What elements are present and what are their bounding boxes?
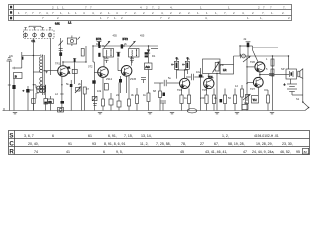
svg-text:VOL: VOL [208, 75, 214, 79]
svg-text:+: + [284, 83, 286, 87]
svg-text:D1: D1 [152, 54, 156, 58]
svg-text:2S45: 2S45 [130, 77, 137, 81]
svg-text:74: 74 [34, 150, 38, 154]
svg-text:0T2: 0T2 [88, 65, 93, 69]
svg-text:41: 41 [66, 150, 70, 154]
svg-text:24, 44, 9, 24a,: 24, 44, 9, 24a, [252, 150, 274, 154]
svg-text:LR: LR [223, 68, 226, 72]
svg-text:2.: 2. [134, 11, 137, 15]
svg-text:23, 30,: 23, 30, [282, 142, 293, 146]
svg-text:45: 45 [180, 150, 184, 154]
svg-text:1.: 1. [62, 6, 65, 10]
svg-text:7,: 7, [39, 11, 42, 15]
svg-text:AN: AN [9, 54, 13, 58]
svg-text:7, 15,: 7, 15, [124, 134, 133, 138]
svg-text:2S12: 2S12 [106, 77, 113, 81]
svg-text:4,: 4, [161, 11, 164, 15]
svg-text:7,: 7, [25, 11, 28, 15]
svg-text:1, 2,: 1, 2, [222, 134, 229, 138]
svg-text:11, 2,: 11, 2, [140, 142, 149, 146]
svg-text:TR4: TR4 [177, 88, 182, 92]
svg-text:2.: 2. [282, 11, 285, 15]
svg-text:TR1: TR1 [55, 62, 60, 66]
svg-text:4,: 4, [170, 6, 173, 10]
svg-text:1.: 1. [114, 16, 117, 20]
svg-text:S1: S1 [296, 97, 300, 101]
svg-text:7, 25, 58,: 7, 25, 58, [156, 142, 171, 146]
svg-text:6, 91,: 6, 91, [108, 134, 117, 138]
svg-text:91: 91 [68, 142, 72, 146]
svg-text:8, 91, 8, 6, 91: 8, 91, 8, 6, 91 [104, 142, 125, 146]
svg-text:S: S [9, 132, 13, 139]
svg-text:455: 455 [140, 34, 145, 38]
svg-text:TR5: TR5 [202, 88, 207, 92]
svg-text:4,: 4, [46, 11, 49, 15]
svg-text:VR: VR [220, 63, 224, 67]
svg-text:1.: 1. [108, 11, 111, 15]
svg-text:27: 27 [200, 142, 204, 146]
svg-text:220: 220 [200, 96, 205, 100]
svg-text:7,: 7, [224, 11, 227, 15]
svg-text:C: C [9, 140, 14, 147]
svg-text:4194-0102-H .01: 4194-0102-H .01 [254, 134, 279, 138]
svg-text:7,: 7, [262, 11, 265, 15]
svg-text:46, 52,: 46, 52, [280, 150, 291, 154]
svg-text:4,: 4, [92, 11, 95, 15]
svg-text:47: 47 [243, 150, 247, 154]
svg-text:20, 40,: 20, 40, [28, 142, 39, 146]
svg-text:1,: 1, [260, 16, 263, 20]
svg-text:61: 61 [88, 134, 92, 138]
svg-text:AG: AG [145, 65, 150, 69]
svg-text:19, 28, 29,: 19, 28, 29, [256, 142, 273, 146]
svg-text:B: B [15, 75, 17, 79]
svg-text:1N: 1N [30, 88, 33, 92]
svg-text:95: 95 [296, 150, 300, 154]
svg-text:6: 6 [103, 150, 105, 154]
svg-text:TR6: TR6 [250, 60, 255, 64]
svg-text:SP: SP [281, 67, 285, 71]
svg-text:1.: 1. [68, 11, 71, 15]
svg-text:1,: 1, [60, 11, 63, 15]
svg-text:TH: TH [253, 98, 257, 102]
svg-text:2.: 2. [100, 11, 103, 15]
svg-text:2.: 2. [188, 11, 191, 15]
svg-text:7,: 7, [152, 6, 155, 10]
svg-text:6: 6 [52, 134, 54, 138]
svg-text:10k: 10k [97, 89, 102, 93]
svg-text:455: 455 [113, 34, 118, 38]
svg-text:IFT2: IFT2 [123, 37, 129, 41]
svg-text:9, 5,: 9, 5, [116, 150, 123, 154]
svg-text:1,: 1, [215, 11, 218, 15]
svg-text:78,: 78, [181, 142, 186, 146]
svg-text:13, 14,: 13, 14, [141, 134, 152, 138]
svg-text:4,: 4, [242, 11, 245, 15]
svg-text:67,: 67, [214, 142, 219, 146]
svg-text:+: + [23, 89, 25, 93]
svg-text:1.: 1. [247, 16, 250, 20]
svg-text:68: 68 [48, 100, 52, 104]
svg-text:10u: 10u [196, 70, 201, 74]
svg-text:1.: 1. [197, 11, 200, 15]
svg-text:0.01: 0.01 [55, 23, 60, 26]
svg-text:4,: 4, [205, 16, 208, 20]
svg-text:0.5: 0.5 [244, 101, 248, 105]
svg-text:TR7: TR7 [250, 87, 255, 91]
svg-text:7,: 7, [283, 6, 286, 10]
svg-text:R: R [9, 148, 14, 155]
svg-text:3, 6, 7: 3, 6, 7 [24, 134, 34, 138]
svg-text:43, 41, 46, 41,: 43, 41, 46, 41, [205, 150, 227, 154]
svg-text:2.: 2. [179, 11, 182, 15]
svg-text:2.: 2. [288, 16, 291, 20]
svg-text:93: 93 [92, 142, 96, 146]
svg-text:1.: 1. [271, 11, 274, 15]
svg-text:IFT1: IFT1 [96, 37, 102, 41]
svg-text:58, 19, 28,: 58, 19, 28, [228, 142, 245, 146]
svg-text:82: 82 [304, 150, 308, 154]
